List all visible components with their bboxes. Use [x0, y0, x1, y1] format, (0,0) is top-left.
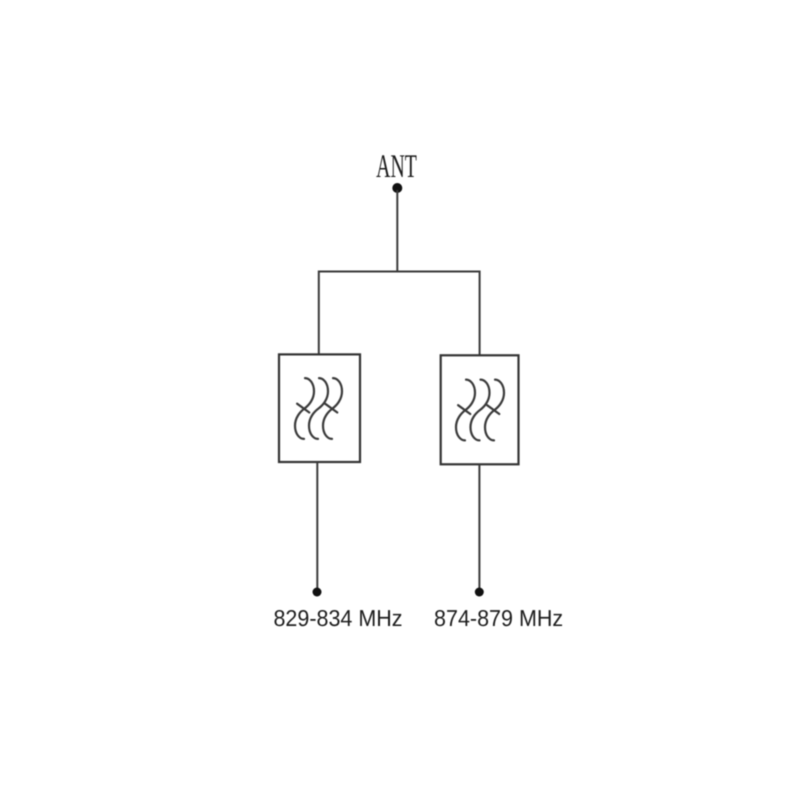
wire from ANT dot to split [396, 190, 398, 272]
svg-text:874-879 MHz: 874-879 MHz [434, 605, 563, 631]
filter FL2 box [441, 355, 519, 464]
svg-text:829-834 MHz: 829-834 MHz [273, 605, 402, 631]
node output 2 dot [475, 588, 484, 597]
label ANT [376, 149, 417, 185]
wire right branch down [479, 271, 481, 356]
filter FL1 wave symbol (crossed, clear, crossed) [295, 378, 342, 439]
node output 1 dot [313, 588, 322, 597]
svg-text:ANT: ANT [376, 149, 417, 185]
node ANT dot [392, 183, 402, 193]
label 829-834 MHz [273, 605, 402, 631]
wire FL1 output [316, 462, 318, 590]
label 874-879 MHz [434, 605, 563, 631]
wire left branch down [318, 271, 320, 355]
wire horizontal splitter bar [319, 271, 480, 273]
wire FL2 output [478, 464, 480, 590]
filter FL2 wave symbol (crossed, clear, crossed) [456, 380, 504, 441]
filter FL1 box [279, 354, 360, 462]
